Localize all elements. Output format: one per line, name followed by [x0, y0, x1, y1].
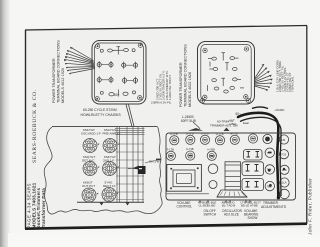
svg-text:CONTROL: CONTROL [177, 205, 193, 209]
svg-text:MODELS 4622 1826: MODELS 4622 1826 [188, 72, 192, 107]
svg-text:60~: 60~ [114, 93, 120, 97]
dark knob [263, 134, 272, 143]
TB2 fan arrowheads [262, 64, 273, 91]
left scan shadow [0, 0, 10, 247]
svg-text:74B: 74B [188, 155, 193, 158]
svg-text:C-7YB: C-7YB [201, 131, 209, 135]
TB1 fan arrowheads [64, 47, 73, 74]
speaker pedestal trapezoid [217, 190, 247, 197]
socket V5 [82, 188, 98, 202]
pointer triangle b [126, 203, 130, 206]
trimmer panel [166, 133, 296, 200]
svg-text:ADJUSTMENTS: ADJUSTMENTS [261, 205, 287, 209]
flat arrowhead [188, 128, 203, 131]
panel bottom labels [177, 201, 287, 221]
triangle pointer [224, 128, 230, 132]
TB1 right wire labels [151, 70, 172, 104]
svg-text:F-LTB: F-LTB [167, 147, 174, 151]
TB1 top terminal strip [100, 47, 135, 55]
svg-text:LB: LB [282, 138, 286, 142]
svg-text:7B8: 7B8 [267, 185, 272, 189]
page frame: right border [306, 26, 308, 224]
svg-text:HOWLRLETTY CHASSIS: HOWLRLETTY CHASSIS [81, 113, 122, 117]
page frame: top border [25, 26, 307, 31]
tiny labels above trimmers [167, 131, 238, 151]
svg-text:+5CRD: +5CRD [275, 108, 286, 112]
svg-text:AD-B: AD-B [229, 203, 236, 207]
tube base boxes column [244, 150, 263, 161]
svg-text:D-7YB: D-7YB [216, 132, 224, 136]
pointer triangle a [100, 203, 104, 206]
socket V4 [103, 162, 119, 176]
tube circle marks [267, 151, 287, 189]
svg-text:LTB: LTB [168, 155, 173, 158]
svg-text:POWER TRANSFORMER: POWER TRANSFORMER [179, 62, 183, 107]
svg-text:John F. Rider, Publisher: John F. Rider, Publisher [308, 178, 313, 235]
harness note [145, 161, 157, 164]
right column tube circles [265, 148, 289, 199]
shelf line under dial [166, 193, 209, 195]
TB2 corner screws [203, 48, 207, 52]
cable harness ladder verticals [117, 127, 143, 202]
wires from TB1 to chassis [126, 105, 132, 127]
svg-text:7 BRN DIAL: 7 BRN DIAL [291, 76, 295, 92]
svg-text:1LB: 1LB [282, 168, 287, 172]
svg-text:B-7YB: B-7YB [186, 131, 194, 135]
svg-text:7Y4: 7Y4 [267, 168, 272, 172]
TB2 terminals [208, 53, 244, 94]
svg-text:BD-LE: BD-LE [241, 203, 249, 207]
TB1 corner screws [95, 44, 99, 48]
svg-text:TERMINAL BOARD CONNECTIONS: TERMINAL BOARD CONNECTIONS [184, 44, 188, 107]
svg-text:AT-BE: AT-BE [250, 203, 258, 207]
svg-text:BL-T: BL-T [222, 203, 228, 207]
terminal board TB1 [92, 41, 146, 105]
page frame: left border [25, 30, 27, 229]
TB1 wire fan [64, 47, 95, 73]
harness component (dark block) [138, 166, 146, 174]
svg-text:a.BEL: a.BEL [229, 122, 237, 126]
svg-text:OUT PUT: OUT PUT [82, 184, 95, 188]
svg-text:G-74B: G-74B [186, 147, 194, 151]
socket V2 [103, 139, 119, 153]
pointer from note to panel [193, 122, 200, 129]
terminal board TB2 [198, 42, 255, 105]
IF transformer ladder box [225, 162, 241, 190]
svg-text:AL-BD: AL-BD [207, 203, 215, 207]
svg-text:POWER TRANSFORMER: POWER TRANSFORMER [52, 58, 56, 103]
chassis top edge line [52, 126, 158, 128]
svg-text:76B: 76B [209, 155, 214, 158]
harness arrow [132, 166, 139, 170]
svg-text:SWITCH: SWITCH [204, 213, 217, 217]
svg-text:E-7YB: E-7YB [231, 131, 239, 135]
panel second row trimmers [166, 151, 175, 160]
svg-text:60-250 CYCLE ST20M: 60-250 CYCLE ST20M [83, 108, 117, 112]
svg-text:MODELS 4612 1920: MODELS 4612 1920 [61, 68, 65, 103]
svg-text:SEARS-ROEBUCK & CO.: SEARS-ROEBUCK & CO. [32, 89, 38, 163]
svg-text:1 RED-YEL 700 CT: 1 RED-YEL 700 CT [168, 75, 172, 100]
svg-text:SHOW: SHOW [248, 216, 258, 220]
svg-text:7B6: 7B6 [267, 151, 272, 155]
svg-text:7C6: 7C6 [281, 153, 287, 157]
svg-text:Eaal: Eaal [243, 121, 249, 125]
dial corner screws [170, 167, 199, 189]
svg-text:H-76B: H-76B [208, 147, 216, 151]
pointer posts under panel [199, 200, 251, 202]
TB2 wire fan [254, 64, 272, 90]
TB1 terminal row 1 [97, 61, 101, 68]
base box pins [246, 152, 260, 188]
TB2 fan wire labels [276, 60, 295, 92]
dial window escutcheon [167, 165, 202, 192]
circles right of dial [208, 164, 218, 174]
TB1 terminal row 2 [97, 76, 101, 83]
socket V1 [83, 139, 99, 153]
cable harness rungs [115, 129, 145, 200]
socket V3 [83, 162, 99, 176]
svg-text:A-7YB: A-7YB [170, 132, 178, 136]
tube circle dark centers [268, 152, 285, 187]
svg-text:2 BRN 6.3V FIL: 2 BRN 6.3V FIL [151, 100, 172, 104]
svg-text:TERMINAL BOARD CONNECTIONS: TERMINAL BOARD CONNECTIONS [57, 40, 61, 103]
socket V6 [102, 188, 118, 202]
panel top row trimmers [170, 136, 179, 145]
page frame: bottom border bar [25, 224, 307, 229]
chassis blob outline [44, 127, 162, 214]
svg-text:OSC-MOD 1-F: OSC-MOD 1-F [81, 131, 101, 135]
chassis bottom edge line [77, 201, 144, 203]
TB1 bottom terminal strip [100, 90, 135, 98]
bottom white strip [8, 233, 320, 247]
svg-text:ADJ.SLZE: ADJ.SLZE [224, 213, 239, 217]
svg-text:1LA: 1LA [282, 181, 287, 185]
speaker cable bundle (thick curves) [238, 113, 278, 198]
